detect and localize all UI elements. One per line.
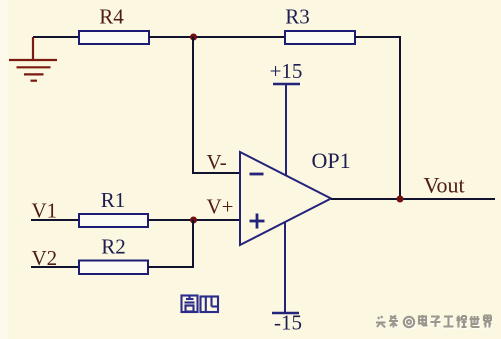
svg-text:R1: R1 [101,188,126,212]
wire V2 lead [31,266,79,268]
power +15 [270,59,303,176]
op-amp U1 triangle [240,152,331,245]
resistor R3 [285,5,355,45]
op-amp plus input symbol [250,214,265,229]
wire riser to node B [192,220,194,267]
caption figure four char si [201,297,219,313]
resistor R2 [79,235,148,275]
svg-text:OP1: OP1 [312,148,351,173]
resistor R4 [79,5,149,45]
svg-text:+15: +15 [270,59,303,83]
resistor R1 [79,188,148,227]
wire R1 to V+ input [148,219,240,221]
svg-text:Vout: Vout [424,173,465,198]
node B junction dot [190,217,197,224]
wire output [331,198,495,200]
wire R4 to R3 [149,36,285,38]
wire R3 to right corner [355,36,401,38]
op-amp minus input symbol [250,173,264,176]
caption figure four char tu [182,296,198,313]
wire inverting riser [192,37,194,173]
node A junction dot [190,34,197,41]
wire V1 lead [31,219,79,221]
svg-text:R2: R2 [101,235,126,259]
svg-text:R3: R3 [285,5,310,29]
svg-text:V+: V+ [207,195,234,219]
node Vout junction dot [397,196,404,203]
svg-text:-15: -15 [274,311,302,335]
watermark white emboss layer [377,316,492,329]
wire feedback vertical [399,36,401,199]
svg-text:V-: V- [207,150,227,174]
wire to V- input [192,172,240,174]
svg-text:V1: V1 [32,199,58,223]
wire ground to R4 [33,36,80,38]
svg-text:R4: R4 [99,5,124,29]
watermark gray text [376,315,491,328]
ground [9,37,57,81]
power -15 [272,222,302,335]
wire R2 to riser [148,266,194,268]
